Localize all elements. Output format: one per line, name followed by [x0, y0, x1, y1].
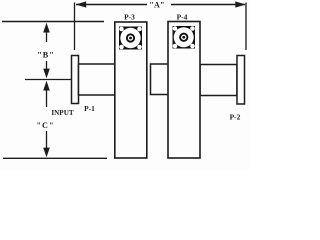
- svg-text:"A": "A": [149, 1, 164, 10]
- svg-text:P-1: P-1: [84, 104, 95, 113]
- body section left: [79, 64, 116, 95]
- dimension C: [43, 81, 50, 158]
- flange P-2: [237, 56, 245, 105]
- dimension line A: [76, 1, 246, 7]
- tower body P-3: [115, 22, 147, 158]
- svg-text:INPUT: INPUT: [51, 109, 74, 117]
- center line (input axis): [25, 79, 105, 81]
- connector face P-3: [119, 27, 142, 50]
- tower body P-4: [168, 22, 200, 159]
- top reference line (B upper extension): [2, 21, 104, 23]
- svg-text:P-3: P-3: [124, 13, 135, 22]
- extension line left (under A arrow): [74, 3, 76, 51]
- dimension B: [43, 23, 50, 79]
- body section right: [200, 65, 237, 96]
- svg-text:P-4: P-4: [177, 13, 188, 22]
- bottom reference line (C lower extension): [3, 157, 107, 159]
- flange P-1: [72, 56, 79, 104]
- svg-text:"B": "B": [37, 50, 55, 59]
- extension line right (under A arrow): [245, 3, 247, 51]
- svg-text:"C": "C": [36, 121, 54, 130]
- svg-text:P-2: P-2: [230, 112, 241, 121]
- connector face P-4: [173, 26, 196, 49]
- body section middle: [151, 64, 170, 95]
